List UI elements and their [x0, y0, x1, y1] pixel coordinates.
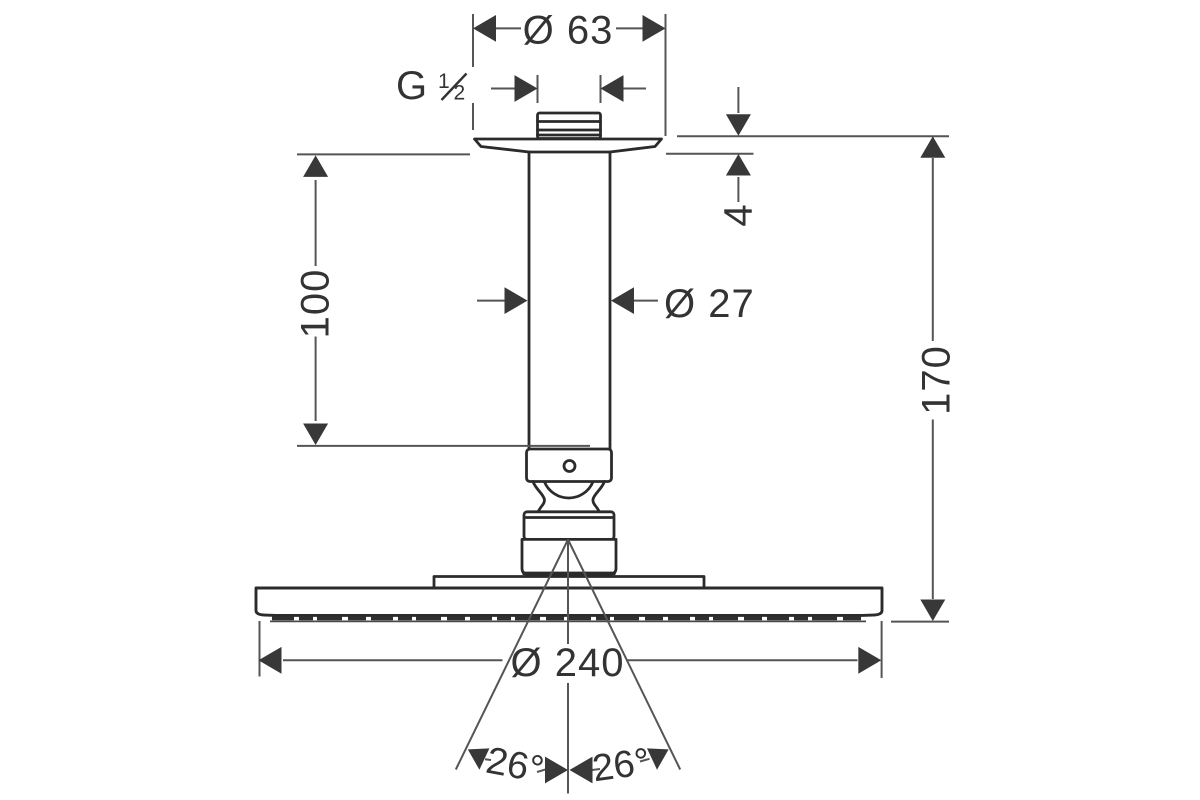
- svg-text:170: 170: [915, 345, 959, 415]
- svg-text:4: 4: [717, 203, 761, 226]
- svg-text:1: 1: [438, 70, 450, 93]
- svg-text:26°: 26°: [590, 741, 653, 791]
- svg-text:Ø 240: Ø 240: [511, 641, 625, 685]
- svg-text:Ø 27: Ø 27: [664, 282, 755, 326]
- svg-text:Ø 63: Ø 63: [523, 8, 614, 52]
- svg-text:G: G: [396, 64, 428, 108]
- svg-text:100: 100: [294, 269, 338, 339]
